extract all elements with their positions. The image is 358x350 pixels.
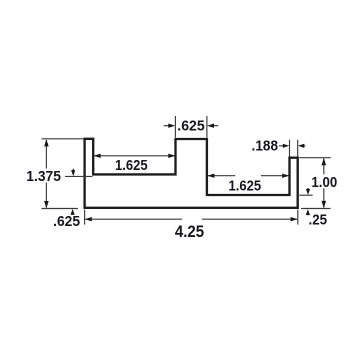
svg-text:1.00: 1.00 bbox=[311, 174, 337, 191]
profile outline bbox=[85, 139, 298, 208]
arrowhead: .25 lower (up) bbox=[306, 209, 310, 215]
dim line: 4.25 left segment bbox=[85, 218, 182, 220]
dim line: 4.25 right segment bbox=[202, 218, 297, 220]
dim line: .188 left tail bbox=[279, 145, 284, 147]
arrowhead: left .625 lower (up) bbox=[71, 209, 75, 215]
dim line: 1.375 lower segment bbox=[45, 183, 47, 208]
arrowhead: .188 left (right) bbox=[283, 144, 289, 148]
arrowhead: .25 upper (down) bbox=[306, 189, 310, 195]
ext line: top .625 left bbox=[174, 116, 176, 138]
ext line: 4.25 left bbox=[84, 210, 86, 225]
svg-text:1.625: 1.625 bbox=[229, 177, 262, 194]
arrowhead: top .625 left (right) bbox=[168, 124, 175, 128]
dim line: right 1.625 seg2 bbox=[261, 175, 289, 177]
arrowhead: left .625 upper tail bbox=[73, 169, 74, 172]
arrowhead: right 1.625 left (left) bbox=[208, 174, 215, 178]
ext line: .188 left bbox=[289, 140, 291, 157]
ext line: .188 right bbox=[297, 140, 299, 157]
dim line: left 1.625 bbox=[94, 155, 175, 157]
arrowhead: 1.00 bottom (down) bbox=[322, 201, 327, 208]
ext line: right slot floor bbox=[299, 194, 312, 196]
svg-text:1.625: 1.625 bbox=[115, 157, 148, 174]
svg-text:.25: .25 bbox=[309, 211, 328, 228]
ext line: 1.00 top bbox=[299, 157, 331, 159]
ext line: top .625 right bbox=[206, 116, 208, 138]
arrowhead: 4.25 left (left) bbox=[85, 217, 92, 221]
arrowhead: 1.00 top (up) bbox=[322, 158, 327, 165]
dim line: 1.00 upper segment bbox=[323, 159, 325, 175]
arrowhead: 4.25 right (right) bbox=[291, 217, 298, 221]
dim line: .188 right tail bbox=[303, 145, 306, 147]
arrowhead: left 1.625 right (right) bbox=[168, 154, 175, 158]
dim line: top .625 right tail bbox=[213, 125, 219, 127]
svg-text:.188: .188 bbox=[252, 138, 279, 155]
ext line: 4.25 right bbox=[297, 210, 299, 225]
svg-text:.625: .625 bbox=[177, 117, 204, 134]
dim line: .25 lower tail bbox=[307, 213, 309, 215]
arrowhead: top .625 right (left) bbox=[207, 124, 214, 128]
svg-text:1.375: 1.375 bbox=[26, 168, 61, 185]
svg-text:.625: .625 bbox=[53, 213, 80, 230]
ext line: base bottom left bbox=[42, 208, 79, 210]
arrowhead: left 1.625 left (left) bbox=[94, 154, 101, 158]
dim line: 1.00 lower segment bbox=[323, 188, 325, 207]
ext line: left slot floor bbox=[65, 175, 93, 177]
dim line: right 1.625 bbox=[208, 175, 236, 177]
arrowhead: 1.375 bottom (down) bbox=[44, 201, 49, 208]
svg-text:4.25: 4.25 bbox=[175, 223, 204, 241]
arrowhead: left .625 upper (down) bbox=[71, 170, 75, 176]
arrowhead: right 1.625 right (right) bbox=[282, 174, 289, 178]
dim line: .25 upper tail bbox=[307, 188, 309, 191]
ext line: 1.375 top bbox=[42, 138, 84, 140]
ext line: base bottom right bbox=[301, 208, 331, 210]
dim line: 1.375 upper segment bbox=[45, 140, 47, 169]
arrowhead: .188 right (left) bbox=[298, 144, 304, 148]
arrowhead: 1.375 top (up) bbox=[44, 139, 49, 146]
dim line: top .625 left tail bbox=[164, 125, 170, 127]
